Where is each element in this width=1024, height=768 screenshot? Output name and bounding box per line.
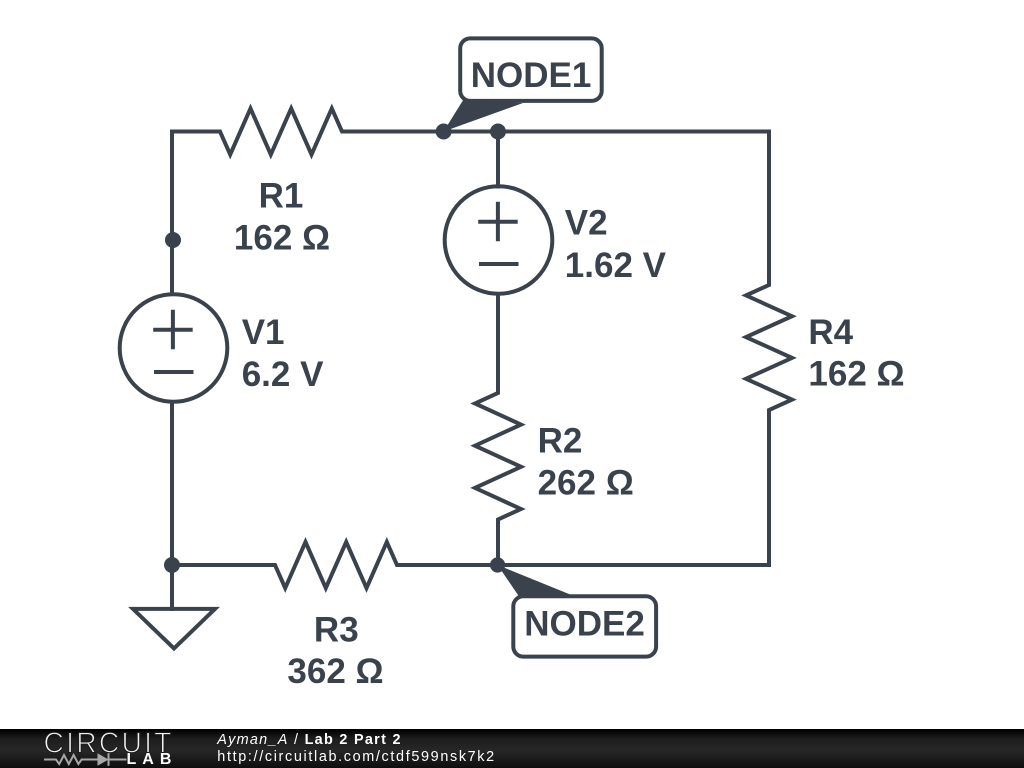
svg-text:262 Ω: 262 Ω: [538, 463, 634, 502]
svg-text:NODE1: NODE1: [471, 56, 592, 95]
svg-text:V2: V2: [565, 204, 608, 243]
svg-text:NODE2: NODE2: [524, 605, 645, 644]
svg-text:6.2 V: 6.2 V: [242, 355, 324, 394]
svg-text:R4: R4: [808, 313, 853, 352]
svg-text:362 Ω: 362 Ω: [287, 652, 383, 691]
svg-text:LAB: LAB: [127, 751, 178, 768]
svg-text:http://circuitlab.com/ctdf599n: http://circuitlab.com/ctdf599nsk7k2: [217, 749, 496, 765]
svg-text:Ayman_A / Lab 2 Part 2: Ayman_A / Lab 2 Part 2: [216, 732, 401, 748]
svg-text:V1: V1: [242, 313, 285, 352]
svg-text:R3: R3: [314, 611, 359, 650]
svg-text:R2: R2: [538, 421, 583, 460]
svg-text:R1: R1: [259, 177, 304, 216]
svg-text:1.62 V: 1.62 V: [565, 246, 667, 285]
svg-text:162 Ω: 162 Ω: [234, 219, 330, 258]
svg-text:162 Ω: 162 Ω: [808, 354, 904, 393]
